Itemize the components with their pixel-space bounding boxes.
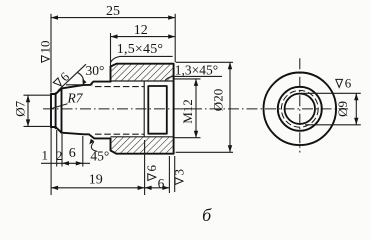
svg-text:12: 12 [134,23,148,38]
hatch bottom band [111,137,174,154]
svg-text:25: 25 [106,4,120,19]
svg-text:1: 1 [42,148,49,163]
dimension 12 [111,33,176,66]
svg-text:M12: M12 [180,99,195,124]
label nabla6 rotated 45 [51,69,73,91]
svg-text:30°: 30° [86,63,105,78]
svg-text:6: 6 [158,176,165,191]
svg-text:б: б [202,205,212,225]
dimension M12 [174,79,201,138]
svg-text:6: 6 [345,76,352,91]
svg-text:45°: 45° [90,149,109,164]
svg-text:Ø7: Ø7 [13,100,28,116]
svg-text:19: 19 [89,172,103,187]
nabla6 bottom rotated [144,165,159,181]
svg-text:6: 6 [144,165,159,172]
svg-text:R7: R7 [67,91,84,106]
nabla6 right view [336,76,352,91]
svg-text:1,5×45°: 1,5×45° [117,42,163,57]
right view circles [264,73,337,146]
dimension 6 bottom right [145,187,170,189]
svg-text:Ø20: Ø20 [210,89,225,111]
svg-text:10: 10 [38,41,53,54]
dimension dia20 [176,62,233,152]
right view centerline vertical [299,58,301,152]
dimension dia7 [24,95,52,126]
svg-text:1,3×45°: 1,3×45° [175,63,218,78]
svg-text:3: 3 [171,169,186,176]
svg-text:6: 6 [69,146,76,161]
interior thin lines [95,81,174,137]
dimension 19 [51,187,145,189]
hatch top band [111,64,174,81]
part outline left view [51,64,174,154]
svg-text:2: 2 [56,148,63,163]
label nabla10 rotated [38,41,53,63]
dimension dia9 [301,93,361,125]
bottom small chain dims 1 2 6 [41,128,90,195]
30 degree callout [58,64,86,91]
nabla3 bottom rotated [171,169,186,185]
dimension 25 [51,14,175,93]
wire centerline horizontal axis [43,108,348,110]
svg-text:Ø9: Ø9 [335,101,350,117]
